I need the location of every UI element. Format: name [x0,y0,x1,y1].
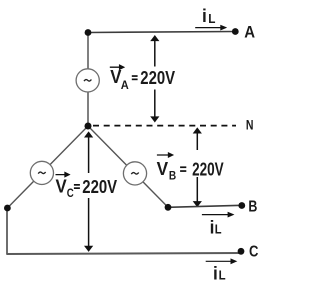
node A terminal dot [232,28,239,35]
svg-text:C: C [67,186,74,200]
svg-text:N: N [246,117,254,133]
source VC (AC source, circle with tilde) [30,161,53,184]
neutral dashed wire N [93,125,236,127]
node B terminal dot [238,202,245,209]
label iL phase A [202,5,216,26]
current arrow iL phase C [206,259,236,263]
wire phase C bottom horizontal [6,253,241,254]
svg-text:220V: 220V [140,68,175,88]
node dot B-left (VB to line B) [165,204,172,211]
svg-text:L: L [219,268,226,282]
wire VB branch diagonal [88,126,168,207]
svg-text:220V: 220V [192,159,224,179]
node C terminal dot [238,248,245,255]
measure arrow VC (220V between node N and line C) [86,133,92,251]
svg-text:L: L [215,222,222,236]
svg-text:i: i [202,5,207,26]
measure arrow VB (220V between neutral and line B) [194,129,200,206]
svg-text:220V: 220V [82,177,117,197]
wire left vertical segment [6,208,8,254]
svg-text:C: C [249,243,259,260]
label iL phase B [210,216,222,237]
wire VC branch diagonal [7,126,88,208]
junction dot top (line A to VA branch) [85,29,92,36]
wire phase A horizontal [88,32,235,33]
node N junction dot (star point) [85,123,92,130]
svg-text:B: B [169,169,177,183]
wire phase B horizontal [168,205,242,207]
svg-text:i: i [213,262,218,283]
label iL phase C [213,262,226,283]
svg-text:L: L [208,12,216,26]
svg-text:V: V [157,159,169,179]
label VB = 220V (value label, white backing over measure arrow) [157,150,226,183]
source VA (AC source, circle with tilde) [76,69,99,92]
wire VA branch vertical [87,33,89,127]
measure arrow VA (220V between line A and neutral) [152,36,158,121]
source VB (AC source, circle with tilde) [123,162,146,185]
label VC = 220V (value label, white backing over measure arrow) [56,173,122,201]
label VA = 220V (value label, white backing over measure arrow) [110,65,178,92]
svg-text:A: A [121,78,129,92]
current arrow iL phase A [195,26,225,30]
svg-text:B: B [248,199,257,216]
svg-text:i: i [210,216,215,237]
svg-text:V: V [56,177,67,197]
current arrow iL phase B [202,213,233,217]
svg-text:A: A [244,22,255,41]
node dot left (VC to line C corner) [4,205,11,212]
